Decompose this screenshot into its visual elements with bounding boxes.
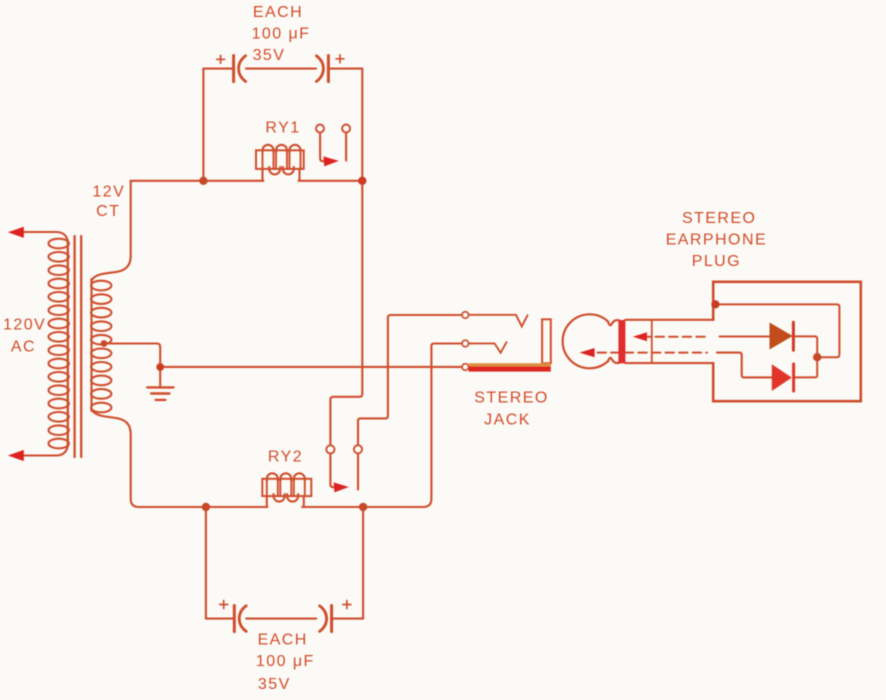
svg-text:EACH: EACH bbox=[253, 4, 303, 21]
svg-text:AC: AC bbox=[11, 339, 36, 356]
svg-text:100 μF: 100 μF bbox=[252, 26, 311, 43]
svg-text:35V: 35V bbox=[258, 676, 291, 693]
svg-text:RY2: RY2 bbox=[268, 449, 303, 466]
svg-text:100 μF: 100 μF bbox=[256, 653, 315, 670]
svg-text:EACH: EACH bbox=[258, 631, 308, 648]
svg-text:120V: 120V bbox=[3, 317, 46, 334]
svg-text:12V: 12V bbox=[92, 183, 125, 200]
svg-text:JACK: JACK bbox=[484, 411, 531, 428]
svg-text:STEREO: STEREO bbox=[474, 390, 549, 407]
svg-text:STEREO: STEREO bbox=[682, 210, 757, 227]
svg-text:PLUG: PLUG bbox=[692, 253, 741, 270]
svg-text:35V: 35V bbox=[253, 47, 286, 64]
svg-text:CT: CT bbox=[96, 203, 120, 220]
svg-text:EARPHONE: EARPHONE bbox=[666, 232, 767, 249]
svg-text:RY1: RY1 bbox=[265, 119, 300, 136]
